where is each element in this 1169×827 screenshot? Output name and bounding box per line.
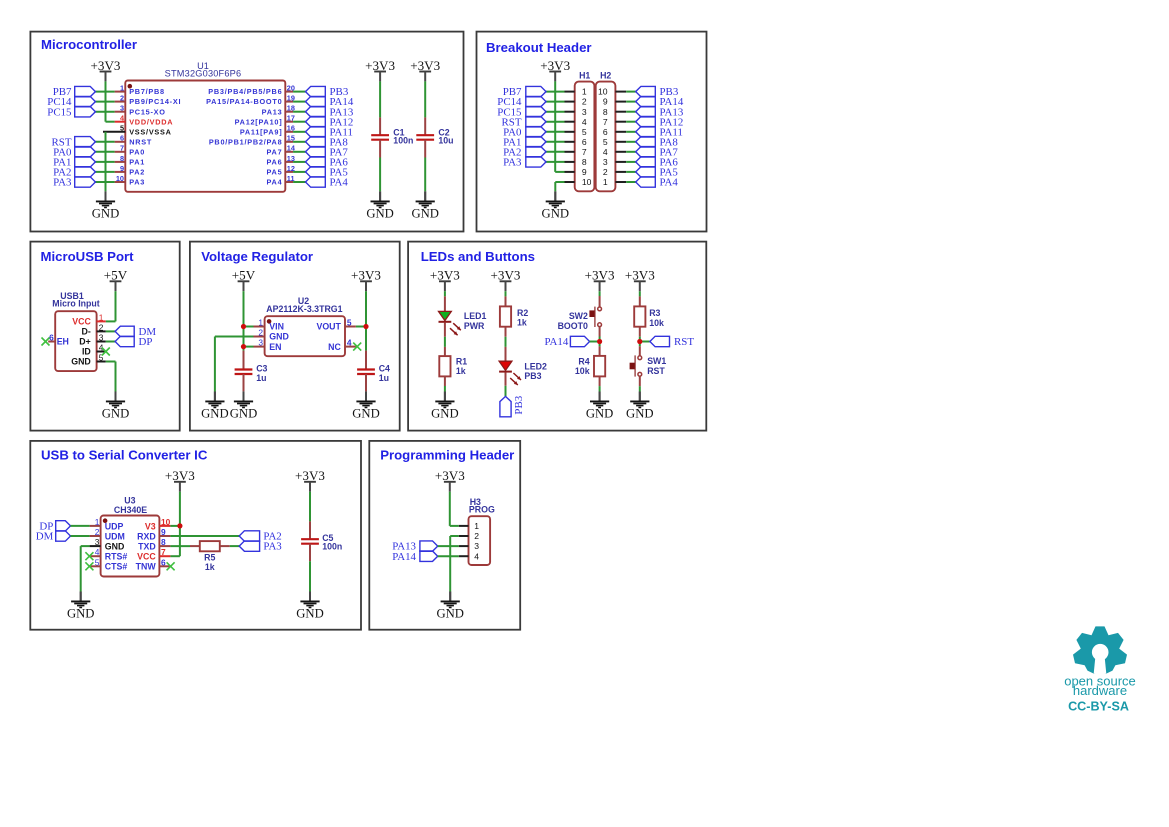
svg-text:RST: RST <box>647 366 665 376</box>
svg-text:100n: 100n <box>322 542 342 552</box>
svg-text:Microcontroller: Microcontroller <box>41 37 137 52</box>
svg-text:+3V3: +3V3 <box>365 58 395 73</box>
svg-text:+3V3: +3V3 <box>295 468 325 483</box>
svg-text:GND: GND <box>201 407 229 421</box>
svg-text:PA4: PA4 <box>266 178 282 187</box>
svg-text:15: 15 <box>287 134 295 143</box>
svg-text:100n: 100n <box>393 136 413 146</box>
svg-text:D-: D- <box>82 327 91 337</box>
svg-text:10u: 10u <box>438 136 453 146</box>
svg-text:4: 4 <box>474 551 479 561</box>
svg-text:19: 19 <box>287 94 295 103</box>
svg-text:1k: 1k <box>456 366 466 376</box>
svg-text:6: 6 <box>120 134 124 143</box>
svg-text:PWR: PWR <box>464 321 485 331</box>
svg-text:+3V3: +3V3 <box>430 268 460 283</box>
svg-text:UDM: UDM <box>105 531 125 541</box>
svg-text:11: 11 <box>287 174 295 183</box>
svg-text:1k: 1k <box>205 562 215 572</box>
svg-text:RXD: RXD <box>137 531 156 541</box>
svg-text:LED1: LED1 <box>464 311 487 321</box>
svg-text:V3: V3 <box>145 521 156 531</box>
svg-text:1k: 1k <box>517 318 527 328</box>
svg-text:PA3: PA3 <box>503 157 522 169</box>
svg-text:GND: GND <box>366 207 394 221</box>
svg-text:10k: 10k <box>649 318 664 328</box>
svg-text:5: 5 <box>120 124 124 133</box>
svg-text:R1: R1 <box>456 356 467 366</box>
svg-text:GND: GND <box>436 607 464 621</box>
svg-text:C3: C3 <box>256 363 267 373</box>
svg-text:Voltage Regulator: Voltage Regulator <box>201 249 313 264</box>
svg-text:PB3: PB3 <box>513 395 525 414</box>
svg-text:EN: EN <box>269 342 281 352</box>
svg-text:GND: GND <box>92 207 120 221</box>
svg-text:Breakout Header: Breakout Header <box>486 40 592 55</box>
svg-text:1u: 1u <box>379 373 389 383</box>
svg-text:PC15-XO: PC15-XO <box>129 107 165 116</box>
svg-text:RST: RST <box>674 336 694 348</box>
svg-text:2: 2 <box>582 97 587 107</box>
svg-text:NRST: NRST <box>129 137 152 146</box>
svg-text:9: 9 <box>582 167 587 177</box>
svg-text:16: 16 <box>287 124 295 133</box>
svg-text:2: 2 <box>603 167 608 177</box>
svg-text:BOOT0: BOOT0 <box>558 321 588 331</box>
svg-text:R5: R5 <box>204 552 215 562</box>
svg-text:R3: R3 <box>649 308 660 318</box>
svg-text:PA14: PA14 <box>544 336 568 348</box>
svg-text:UDP: UDP <box>105 521 124 531</box>
svg-text:20: 20 <box>287 84 295 93</box>
svg-text:DM: DM <box>36 531 54 543</box>
svg-text:R2: R2 <box>517 308 528 318</box>
svg-text:GND: GND <box>626 407 654 421</box>
svg-text:8: 8 <box>603 107 608 117</box>
svg-text:8: 8 <box>582 157 587 167</box>
svg-text:2: 2 <box>474 531 479 541</box>
svg-text:1: 1 <box>120 84 124 93</box>
svg-text:STM32G030F6P6: STM32G030F6P6 <box>165 69 242 79</box>
svg-text:10: 10 <box>598 87 608 97</box>
svg-text:GND: GND <box>411 207 439 221</box>
svg-text:GND: GND <box>230 407 258 421</box>
svg-text:GND: GND <box>105 542 125 552</box>
svg-text:CTS#: CTS# <box>105 562 128 572</box>
svg-text:7: 7 <box>120 144 124 153</box>
svg-text:U3: U3 <box>124 495 135 505</box>
svg-text:LEDs and Buttons: LEDs and Buttons <box>421 249 535 264</box>
svg-text:+5V: +5V <box>104 268 128 283</box>
svg-text:PA7: PA7 <box>266 147 282 156</box>
svg-text:PA3: PA3 <box>129 178 145 187</box>
svg-text:GND: GND <box>296 607 324 621</box>
svg-text:TNW: TNW <box>136 562 157 572</box>
svg-text:MicroUSB Port: MicroUSB Port <box>41 249 135 264</box>
svg-text:VCC: VCC <box>72 317 91 327</box>
svg-text:6: 6 <box>582 137 587 147</box>
svg-text:+3V3: +3V3 <box>410 58 440 73</box>
svg-text:2: 2 <box>120 94 124 103</box>
svg-text:Programming Header: Programming Header <box>380 448 514 463</box>
svg-text:PA4: PA4 <box>660 177 679 189</box>
svg-text:5: 5 <box>603 137 608 147</box>
svg-text:RTS#: RTS# <box>105 552 128 562</box>
svg-text:GND: GND <box>542 207 570 221</box>
svg-text:GND: GND <box>431 407 459 421</box>
svg-text:13: 13 <box>287 154 295 163</box>
svg-text:+5V: +5V <box>232 268 256 283</box>
svg-text:10: 10 <box>582 177 592 187</box>
svg-text:VDD/VDDA: VDD/VDDA <box>129 117 173 126</box>
svg-text:PA1: PA1 <box>129 158 145 167</box>
svg-text:VCC: VCC <box>137 552 156 562</box>
svg-text:9: 9 <box>120 164 124 173</box>
svg-text:PA15/PA14-BOOT0: PA15/PA14-BOOT0 <box>206 97 282 106</box>
svg-text:CC-BY-SA: CC-BY-SA <box>1068 699 1129 713</box>
svg-text:GND: GND <box>67 607 95 621</box>
svg-text:+3V3: +3V3 <box>165 468 195 483</box>
svg-text:10k: 10k <box>575 366 590 376</box>
svg-text:PA0: PA0 <box>129 147 145 156</box>
svg-text:17: 17 <box>287 114 295 123</box>
svg-text:PB9/PC14-XI: PB9/PC14-XI <box>129 97 181 106</box>
svg-text:PA4: PA4 <box>330 177 349 189</box>
svg-text:GND: GND <box>352 407 380 421</box>
svg-text:3: 3 <box>582 107 587 117</box>
svg-text:TXD: TXD <box>138 542 156 552</box>
svg-text:ID: ID <box>82 347 91 357</box>
svg-text:hardware: hardware <box>1073 683 1127 698</box>
svg-text:5: 5 <box>582 127 587 137</box>
svg-text:NC: NC <box>328 342 341 352</box>
svg-text:SW1: SW1 <box>647 356 666 366</box>
svg-text:10: 10 <box>116 174 124 183</box>
svg-text:SW2: SW2 <box>569 311 588 321</box>
svg-text:Micro Input: Micro Input <box>52 299 99 309</box>
svg-text:VIN: VIN <box>269 322 284 332</box>
svg-text:+3V3: +3V3 <box>540 58 570 73</box>
svg-text:3: 3 <box>120 104 124 113</box>
svg-text:GND: GND <box>71 357 91 367</box>
svg-text:R4: R4 <box>578 356 589 366</box>
svg-text:PA3: PA3 <box>53 177 72 189</box>
svg-text:6: 6 <box>603 127 608 137</box>
svg-text:+3V3: +3V3 <box>435 468 465 483</box>
svg-text:DP: DP <box>139 336 153 348</box>
svg-text:14: 14 <box>287 144 296 153</box>
svg-text:1: 1 <box>474 521 479 531</box>
svg-text:1u: 1u <box>256 373 266 383</box>
svg-text:VSS/VSSA: VSS/VSSA <box>129 127 172 136</box>
svg-text:PB3: PB3 <box>524 371 541 381</box>
svg-text:PA12[PA10]: PA12[PA10] <box>235 117 283 126</box>
svg-text:12: 12 <box>287 164 295 173</box>
svg-text:CH340E: CH340E <box>114 505 147 515</box>
svg-text:PA3: PA3 <box>263 541 282 553</box>
svg-text:GND: GND <box>269 332 289 342</box>
svg-text:PB3/PB4/PB5/PB6: PB3/PB4/PB5/PB6 <box>208 87 282 96</box>
svg-text:PA2: PA2 <box>129 168 145 177</box>
svg-text:+3V3: +3V3 <box>91 58 121 73</box>
svg-text:PB7/PB8: PB7/PB8 <box>129 87 165 96</box>
svg-text:H1: H1 <box>579 71 590 81</box>
svg-text:PA11[PA9]: PA11[PA9] <box>240 127 283 136</box>
svg-text:PC15: PC15 <box>47 106 72 118</box>
svg-text:7: 7 <box>603 117 608 127</box>
svg-text:AP2112K-3.3TRG1: AP2112K-3.3TRG1 <box>266 304 342 314</box>
svg-text:3: 3 <box>474 541 479 551</box>
svg-text:PB0/PB1/PB2/PA8: PB0/PB1/PB2/PA8 <box>209 137 283 146</box>
svg-text:18: 18 <box>287 104 295 113</box>
svg-text:1: 1 <box>603 177 608 187</box>
svg-text:USB to Serial Converter IC: USB to Serial Converter IC <box>41 448 208 463</box>
svg-text:4: 4 <box>582 117 587 127</box>
svg-text:GND: GND <box>586 407 614 421</box>
svg-text:PA13: PA13 <box>262 107 283 116</box>
svg-text:PA5: PA5 <box>266 168 282 177</box>
svg-text:+3V3: +3V3 <box>491 268 521 283</box>
svg-text:H2: H2 <box>600 71 611 81</box>
svg-text:9: 9 <box>603 97 608 107</box>
svg-text:+3V3: +3V3 <box>585 268 615 283</box>
svg-text:LED2: LED2 <box>524 361 547 371</box>
svg-text:PA6: PA6 <box>266 158 282 167</box>
svg-text:EH: EH <box>57 337 69 347</box>
svg-text:+3V3: +3V3 <box>351 268 381 283</box>
svg-text:7: 7 <box>582 147 587 157</box>
svg-text:D+: D+ <box>79 337 91 347</box>
svg-text:VOUT: VOUT <box>316 322 341 332</box>
svg-text:PA14: PA14 <box>392 551 416 563</box>
svg-text:+3V3: +3V3 <box>625 268 655 283</box>
svg-text:C4: C4 <box>379 363 390 373</box>
svg-text:1: 1 <box>582 87 587 97</box>
svg-text:GND: GND <box>102 407 130 421</box>
svg-text:PROG: PROG <box>469 505 495 515</box>
svg-text:8: 8 <box>120 154 124 163</box>
svg-text:3: 3 <box>603 157 608 167</box>
svg-text:4: 4 <box>603 147 608 157</box>
